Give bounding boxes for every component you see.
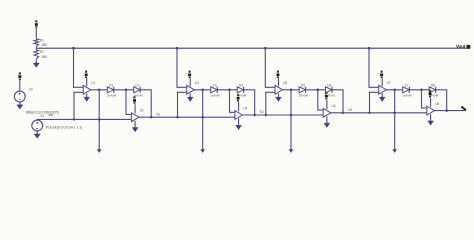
svg-text:D2: D2 [135, 83, 139, 87]
voltage source V2 [14, 91, 25, 102]
wire monitor drop 3 [290, 90, 292, 150]
diode D6 [326, 87, 332, 93]
voltage source V1 [32, 120, 43, 131]
minus mark (V1) [36, 128, 38, 130]
node rail junction 3 [264, 47, 267, 50]
svg-text:180: 180 [41, 43, 47, 47]
wire V- pin U7 [381, 93, 383, 97]
plus mark (V1) [36, 122, 38, 124]
minus mark (V2) [19, 99, 21, 101]
diode D4 [237, 87, 243, 93]
wire output U3 [194, 89, 211, 91]
node output junction U7 [393, 89, 396, 92]
ground (monitor drop 2) [201, 149, 205, 152]
svg-text:D7: D7 [405, 83, 409, 87]
power flag V+ (U4) [237, 94, 239, 96]
power flag V+ (U6) [325, 92, 327, 94]
node rail junction 1 [72, 47, 75, 50]
wire V+ pin U3 [189, 78, 191, 86]
wire U3 -in feedback to bus [178, 92, 187, 117]
wire monitor drop 4 [394, 90, 396, 150]
node bus crossing 1 [98, 118, 101, 121]
node bus crossing 2 [201, 116, 204, 119]
wire V- pin U8 [430, 114, 432, 121]
wire power flag to R1 [35, 28, 37, 37]
wire monitor drop 1 [98, 90, 100, 150]
op-amp U8 [427, 106, 435, 115]
node feedback T 1 [73, 118, 75, 120]
wire V+ pin U8 [430, 98, 432, 107]
wire V- pin U2 [134, 121, 136, 128]
wire U7 -in feedback to bus [370, 92, 379, 113]
ground (U8) [428, 121, 434, 125]
node mid chain 2 [228, 89, 231, 92]
power flag V+ (U8) [429, 90, 431, 92]
svg-text:U8: U8 [435, 102, 439, 106]
ground (U5) [276, 97, 282, 101]
wire output U7 [386, 89, 403, 91]
diode D5 [299, 87, 305, 93]
svg-text:Vout: Vout [456, 44, 466, 49]
power flag V+ (U3) [189, 71, 191, 73]
ground (monitor drop 1) [97, 149, 101, 152]
ground (V2) [19, 102, 21, 105]
node output junction U5 [290, 89, 293, 92]
op-amp U6 [323, 108, 331, 117]
svg-text:180: 180 [41, 55, 47, 59]
op-amp U4 [235, 111, 243, 120]
resistor R2 [34, 48, 39, 60]
power flag V+ (top of divider) [35, 20, 37, 22]
node mid chain 3 [317, 89, 320, 92]
wire V+ pin U1 [86, 78, 88, 86]
wire D3 to D4 [218, 89, 238, 91]
node chain-end T 2 [253, 114, 256, 117]
svg-text:N3: N3 [348, 108, 352, 112]
diode D2 [134, 87, 140, 93]
wire output bus segment 1 [139, 116, 235, 118]
ground (U6) [324, 123, 330, 127]
diode D7 [403, 87, 409, 93]
power flag V+ (U5) [277, 71, 279, 73]
node output junction U1 [98, 89, 101, 92]
wire output U5 [283, 89, 300, 91]
power flag V+ (U2) [133, 96, 135, 98]
node bus crossing 4 [393, 112, 396, 115]
node chain-end T 1 [150, 116, 153, 119]
ground (U7) [379, 97, 385, 101]
net flag Vn (above V2) [19, 72, 21, 74]
net flag at rail end [467, 45, 471, 49]
wire output bus segment 2 [243, 114, 324, 116]
ground (U2) [132, 128, 138, 132]
resistor R1 [34, 37, 39, 48]
wire rail drop to U5 +in [265, 48, 275, 87]
svg-text:R2: R2 [40, 50, 44, 54]
op-amp U5 [275, 85, 283, 94]
node mid chain 4 [420, 89, 423, 92]
wire V2 to net flag [19, 80, 21, 91]
op-amp U1 [83, 85, 91, 94]
svg-text:U6: U6 [332, 104, 336, 108]
ground (divider) [35, 60, 37, 63]
svg-text:Vin: Vin [48, 113, 53, 117]
node output junction U3 [201, 89, 204, 92]
svg-text:1N4148: 1N4148 [210, 93, 220, 97]
svg-text:1N4148: 1N4148 [299, 93, 309, 97]
wire output bus segment 3 [331, 112, 427, 114]
wire V1 to input bus [37, 118, 131, 121]
wire chain node to U6 +in [318, 90, 323, 110]
op-amp U3 [187, 85, 195, 94]
node bus crossing 3 [290, 114, 293, 117]
ground (monitor drop 4) [393, 149, 397, 152]
diode D8 [429, 87, 435, 93]
node feedback T 2 [176, 116, 178, 118]
op-amp U7 [379, 85, 387, 94]
node feedback T 3 [265, 114, 267, 116]
ground (V1) [36, 131, 38, 134]
node mid chain 1 [125, 89, 128, 92]
wire U1 -in feedback to bus [74, 92, 83, 119]
svg-text:D6: D6 [327, 83, 331, 87]
wire V- pin U3 [189, 93, 191, 97]
node chain-end T 3 [342, 112, 345, 115]
wire rail drop to U7 +in [369, 48, 379, 87]
svg-text:1N4148: 1N4148 [107, 93, 117, 97]
node chain-end T 4 [445, 109, 448, 112]
wire chain node to U8 +in [422, 90, 427, 108]
wire output bus to out flag [435, 110, 467, 112]
svg-text:D1: D1 [109, 83, 113, 87]
wire rail drop to U1 +in [74, 48, 84, 87]
svg-text:U2: U2 [140, 109, 144, 113]
svg-text:D4: D4 [239, 83, 243, 87]
svg-text:V1: V1 [40, 114, 44, 118]
ground (U3) [187, 97, 193, 101]
svg-text:D5: D5 [301, 83, 305, 87]
svg-text:U5: U5 [283, 81, 287, 85]
wire chain node to U4 +in [230, 90, 235, 113]
plus mark (V2) [19, 93, 21, 95]
wire V+ pin U5 [278, 78, 280, 86]
svg-text:D8: D8 [431, 83, 435, 87]
wire monitor drop 2 [202, 90, 204, 150]
wire D6 to bus elbow [332, 90, 343, 113]
wire V- pin U1 [86, 93, 88, 97]
wire D5 to D6 [306, 89, 326, 91]
wire D7 to D8 [410, 89, 430, 91]
svg-text:U7: U7 [387, 81, 391, 85]
ground (U1) [84, 97, 90, 101]
node rail junction 4 [368, 47, 371, 50]
wire D8 to bus elbow [436, 90, 447, 111]
net flag out (end of bus) [461, 107, 466, 111]
power flag V+ (U7) [381, 71, 383, 73]
ground (monitor drop 3) [289, 149, 293, 152]
wire V- pin U4 [238, 119, 240, 126]
wire D4 to bus elbow [244, 90, 255, 115]
svg-text:U1: U1 [91, 81, 95, 85]
svg-text:R1: R1 [40, 39, 44, 43]
node feedback T 4 [368, 112, 370, 114]
svg-text:U4: U4 [243, 106, 247, 110]
wire chain node to U2 +in [126, 90, 131, 115]
wire V+ pin U6 [326, 100, 328, 109]
bias rail wire to Vout [36, 47, 470, 49]
wire V- pin U6 [326, 116, 328, 123]
svg-text:U3: U3 [195, 81, 199, 85]
wire V+ pin U7 [381, 78, 383, 86]
svg-text:1N4148: 1N4148 [402, 93, 412, 97]
svg-text:PULSE(0 3 0 0.04 1 1 1): PULSE(0 3 0 0.04 1 1 1) [46, 126, 82, 130]
wire D2 to bus elbow [140, 90, 151, 117]
node rail junction 2 [176, 47, 179, 50]
wire output U1 [91, 89, 108, 91]
svg-text:N1: N1 [156, 112, 160, 116]
svg-text:D3: D3 [213, 83, 217, 87]
wire rail drop to U3 +in [177, 48, 187, 87]
ground (U4) [236, 125, 242, 129]
svg-text:V2: V2 [29, 87, 33, 91]
wire U5 -in feedback to bus [266, 92, 275, 115]
power flag V+ (U1) [85, 71, 87, 73]
diode D1 [107, 87, 113, 93]
wire V+ pin U2 [134, 104, 136, 113]
wire V- pin U5 [278, 93, 280, 97]
diode D3 [211, 87, 217, 93]
wire D1 to D2 [114, 89, 134, 91]
wire V+ pin U4 [238, 102, 240, 111]
svg-text:N2: N2 [260, 110, 264, 114]
op-amp U2 [131, 113, 139, 122]
